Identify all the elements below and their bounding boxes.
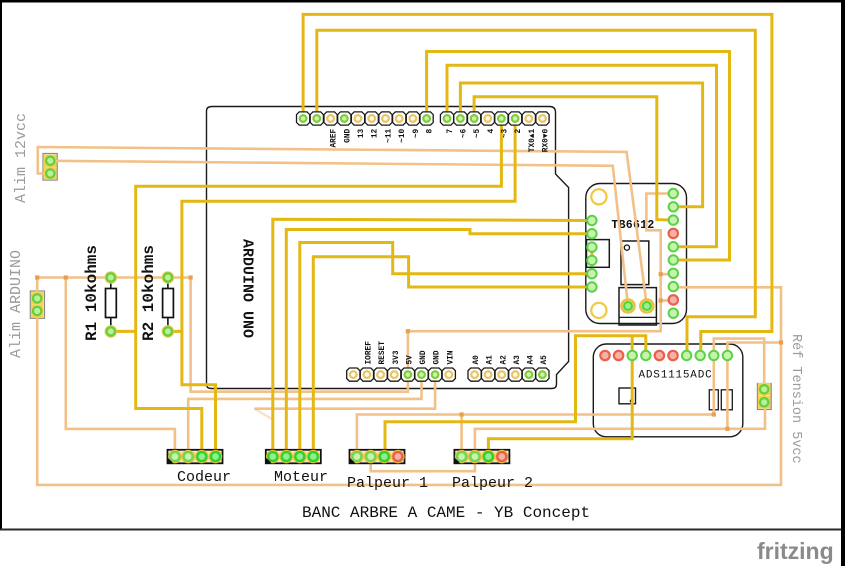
- wire Arduino 5V up to TB6612 rail: [408, 194, 673, 375]
- Alim 12vcc pads: [44, 155, 57, 168]
- ADS1115 small rect 1: [709, 390, 718, 410]
- TB6612 left pins: [587, 216, 596, 292]
- svg-text:Réf Tension 5vcc: Réf Tension 5vcc: [788, 334, 803, 464]
- ADS1115 IC square: [619, 388, 636, 404]
- wire branch ADS pin3 up: [631, 336, 634, 356]
- ADS1115 small rect 2: [721, 390, 732, 410]
- svg-text:A2: A2: [500, 355, 508, 365]
- svg-text:R2 10kohms: R2 10kohms: [140, 245, 158, 341]
- wire ADS pin9 up to Ref Tension pin1: [714, 339, 764, 390]
- wire net 5V: AlimARDUINO pin1 rail across R1 R2 tops: [37, 278, 190, 299]
- wire D2 to R2 bottom to Codeur pin4: [182, 121, 515, 457]
- wire Alim12vcc pin2 to TB6612 motor pad B (top rail): [38, 147, 647, 306]
- wire TB6612 left pins3-4 link: [590, 247, 593, 260]
- svg-text:RX0▼0: RX0▼0: [543, 128, 551, 152]
- TB6612 bottom terminal block: [619, 288, 656, 325]
- svg-text:TX0▲1: TX0▲1: [529, 128, 537, 152]
- module TB6612 body: [586, 184, 687, 324]
- wire Arduino GND1 to Codeur pin2: [188, 375, 421, 457]
- wire D7 loop to TB6612 right pin5: [447, 65, 717, 247]
- connector Ref Tension outline: [757, 384, 771, 410]
- resistor R1 pins: [105, 272, 116, 283]
- svg-text:ADS1115ADC: ADS1115ADC: [638, 370, 712, 382]
- TB6612 mounting hole bottom-left: [591, 303, 606, 318]
- resistor R2 pins: [162, 272, 173, 283]
- arduino label ARDUINO UNO: [239, 239, 256, 338]
- svg-text:A1: A1: [487, 355, 495, 365]
- svg-text:~10: ~10: [399, 128, 407, 142]
- wire A-net: ADS pin3/pin4 to Palpeur1 pin3: [385, 336, 646, 457]
- wire D6 loop to TB6612 right pin2: [460, 83, 702, 207]
- wire Alim12vcc pin1 to TB6612 motor pad A: [50, 161, 628, 306]
- wire net Ref2: Palpeur2 pin2 rail to Ref Tension pin2: [475, 402, 765, 457]
- svg-text:7: 7: [447, 128, 455, 133]
- arduino top pin labels: [331, 128, 551, 152]
- ADS1115 top pins: [600, 351, 732, 360]
- wire ADS pin10 down to Ref rail: [726, 356, 729, 429]
- arduino top header pins group2: 7 6 5 4 3 2 TX RX: [440, 112, 549, 125]
- wire net Ref1: Palpeur1 pin1 rail to ADS pin9: [357, 356, 714, 457]
- svg-text:GND: GND: [344, 128, 352, 142]
- wire branch to TB6612 right pin7: [661, 273, 674, 276]
- arduino top header pins group1: SCL SDA AREF GND 13 12 ~11 ~10 ~9 8: [297, 112, 434, 125]
- wire net 5V: drop to Arduino 5V pin: [191, 278, 408, 392]
- Alim ARDUINO pads: [31, 292, 44, 305]
- wire Moteur pin1 to TB6612 left pin1: [273, 219, 592, 456]
- TB6612 right pins: [669, 189, 678, 318]
- wire ADS pin3 down to Palpeur2 pin3: [488, 356, 632, 457]
- wire SCL loop: Arduino pin1 top to ADS pin8: [303, 14, 772, 355]
- resistor R2 body: [163, 278, 174, 332]
- wire R2 bottom stub: [168, 330, 182, 333]
- svg-text:~11: ~11: [386, 128, 394, 142]
- svg-text:fritzing: fritzing: [757, 538, 834, 564]
- wire branch AlimARDUINO pin1 to Codeur pin1: [66, 278, 175, 457]
- TB6612 IC rectangle: [621, 241, 649, 285]
- connector Palpeur 2: [454, 450, 509, 464]
- arduino bottom header pins power: [347, 368, 456, 381]
- svg-text:Alim 12vcc: Alim 12vcc: [13, 113, 30, 203]
- wire D8 loop to TB6612 right pin6: [427, 52, 730, 261]
- svg-text:A5: A5: [541, 355, 549, 365]
- wire Arduino GND2 stub: [254, 375, 435, 409]
- arduino bottom pin labels: [366, 341, 550, 365]
- wire D3 to R1 bottom to Codeur pin3: [136, 121, 502, 457]
- svg-text:3V3: 3V3: [393, 350, 401, 364]
- svg-text:12: 12: [372, 128, 380, 138]
- wire GND2 faint diagonal: [254, 409, 272, 420]
- svg-text:Palpeur 1: Palpeur 1: [347, 475, 428, 492]
- svg-text:Alim ARDUINO: Alim ARDUINO: [8, 250, 25, 358]
- WIRES-PEACH: [37, 147, 781, 485]
- svg-text:~5: ~5: [474, 128, 482, 138]
- svg-text:ARDUINO UNO: ARDUINO UNO: [239, 239, 256, 338]
- svg-text:13: 13: [358, 128, 366, 138]
- svg-text:Moteur: Moteur: [274, 469, 328, 486]
- connector Codeur: [168, 450, 223, 464]
- wire branch Palpeur2 pin1: [460, 415, 463, 457]
- svg-text:A4: A4: [528, 355, 536, 365]
- wire Moteur pin4 to TB6612 left pin6: [313, 257, 592, 457]
- arduino bottom header pins analog A0-A5: [468, 368, 549, 381]
- svg-text:A3: A3: [514, 355, 522, 365]
- svg-text:5V: 5V: [407, 355, 415, 365]
- WIRES-GOLD: [50, 14, 772, 457]
- wire Alim12vcc pads link: [49, 161, 52, 174]
- svg-text:4: 4: [488, 128, 496, 133]
- wire SDA loop: Arduino pin2 top to ADS pin7: [317, 30, 756, 355]
- wire Moteur pin2 to TB6612 left pin2: [286, 230, 592, 457]
- TB6612 bottom terminal pins: [622, 300, 635, 313]
- svg-text:IOREF: IOREF: [366, 341, 374, 365]
- svg-text:GND: GND: [420, 350, 428, 364]
- svg-text:~9: ~9: [413, 128, 421, 138]
- svg-text:Palpeur 2: Palpeur 2: [452, 475, 533, 492]
- svg-text:GND: GND: [434, 350, 442, 364]
- svg-text:R1 10kohms: R1 10kohms: [83, 245, 101, 341]
- svg-text:RESET: RESET: [379, 341, 387, 365]
- wire D5 loop to TB6612 right pin3: [474, 97, 673, 220]
- wire Ref Tension pins link: [763, 389, 766, 402]
- wire Moteur pin3 to TB6612 left pin5: [300, 243, 592, 457]
- svg-text:8: 8: [427, 128, 435, 133]
- arduino UNO board outline: [207, 107, 569, 389]
- connector Alim 12vcc outline: [43, 154, 57, 181]
- TB6612 left connector rectangle: [587, 240, 610, 268]
- Ref Tension pads: [758, 383, 771, 396]
- connector Moteur: [266, 450, 321, 464]
- junction dots peach: [35, 272, 783, 431]
- svg-text:A0: A0: [473, 355, 481, 365]
- svg-text:AREF: AREF: [331, 128, 339, 147]
- svg-text:BANC ARBRE A CAME - YB Concept: BANC ARBRE A CAME - YB Concept: [302, 504, 590, 522]
- wire R1 bottom stub: [111, 330, 136, 333]
- wire branch to TB6612 right pin9: [661, 299, 674, 302]
- TB6612 mounting hole top-left: [591, 189, 606, 204]
- svg-text:~6: ~6: [460, 128, 468, 138]
- connector Alim ARDUINO outline: [30, 291, 44, 318]
- TB6612 IC pin1 circle: [624, 245, 629, 250]
- wire Palpeur pin2 bridge below connectors: [371, 457, 475, 471]
- wire net GND bottom: AlimARDUINO pin2 to TB6612 pin8: [37, 287, 781, 485]
- svg-text:2: 2: [515, 128, 523, 133]
- module ADS1115ADC body: [593, 344, 743, 437]
- connector Palpeur 1: [350, 450, 405, 464]
- wire branch ADS pin10 top jog: [727, 343, 781, 356]
- resistor R1 body: [106, 278, 117, 332]
- svg-text:~3: ~3: [501, 128, 509, 138]
- svg-text:VIN: VIN: [447, 350, 455, 364]
- svg-text:Codeur: Codeur: [177, 469, 231, 486]
